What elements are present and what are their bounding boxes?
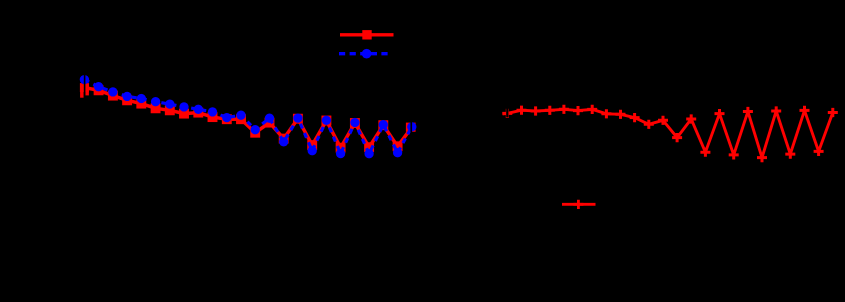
left plot: red point 1 error-bar legs — [80, 83, 89, 98]
left legend: blue circle — [362, 49, 372, 59]
left plot: red square markers — [80, 83, 416, 152]
left plot: blue dashed connecting line — [84, 80, 411, 154]
right plot: red plus markers — [502, 105, 838, 163]
right legend: red plus marker — [573, 200, 583, 209]
left legend: red sample line — [340, 33, 394, 36]
left legend: red square — [362, 30, 371, 39]
right legend: red sample line — [562, 203, 596, 206]
left plot: black slit over first point — [84, 75, 86, 98]
left plot: black slit over last point — [410, 122, 412, 133]
left legend: blue dashed sample line — [339, 52, 392, 55]
right plot: black slit over first point — [506, 108, 508, 117]
right plot: red series connecting line — [503, 109, 833, 157]
left plot: red series connecting line — [84, 88, 411, 148]
left plot: blue circle markers — [80, 75, 417, 158]
